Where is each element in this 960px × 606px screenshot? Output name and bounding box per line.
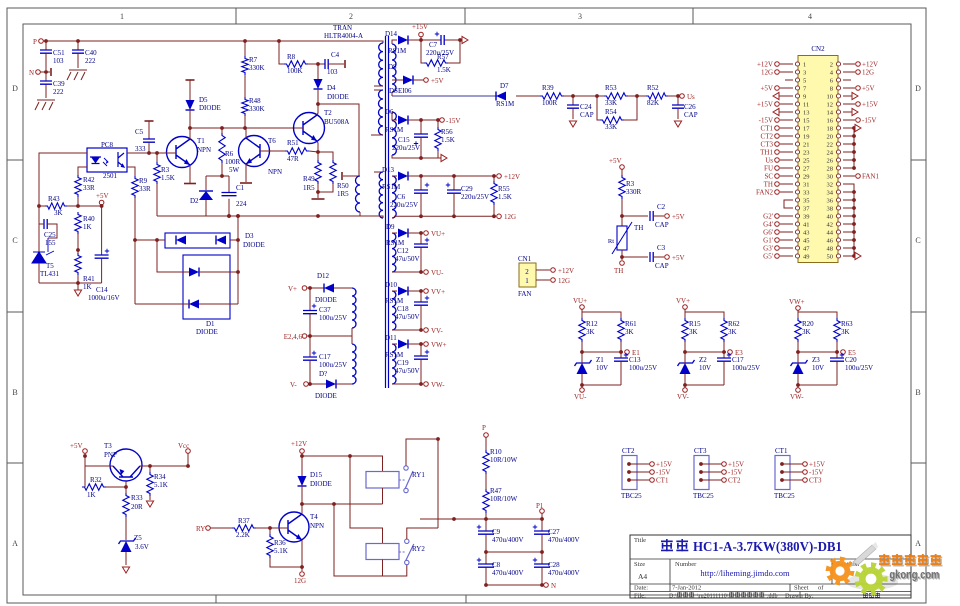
- svg-text:20R: 20R: [131, 503, 143, 511]
- svg-text:VU-: VU-: [574, 393, 587, 401]
- svg-text:15: 15: [803, 118, 810, 125]
- bottom wire D9 row / pin VU-: [394, 271, 423, 273]
- svg-text:R41: R41: [83, 275, 95, 283]
- svg-text:100u/25V: 100u/25V: [732, 364, 760, 372]
- resistor R40: [75, 212, 81, 234]
- svg-text:220u/25V: 220u/25V: [392, 144, 420, 152]
- svg-text:C28: C28: [548, 561, 560, 569]
- wire mid E3: [684, 342, 686, 352]
- svg-text:D12: D12: [317, 272, 330, 280]
- svg-text:+5V: +5V: [96, 192, 109, 200]
- svg-text:Z5: Z5: [134, 534, 142, 542]
- svg-text:33R: 33R: [139, 185, 151, 193]
- CT1 pin +15V: [780, 462, 784, 466]
- wire P top bus: [43, 40, 372, 42]
- svg-text:3K: 3K: [586, 328, 595, 336]
- svg-text:24: 24: [827, 150, 834, 157]
- svg-text:A: A: [915, 539, 921, 548]
- capacitor C3: [622, 256, 648, 258]
- svg-text:5.1K: 5.1K: [154, 481, 168, 489]
- svg-text:470u/400V: 470u/400V: [548, 569, 580, 577]
- net G2' pin: [780, 215, 793, 217]
- svg-text:39: 39: [803, 214, 810, 221]
- resistor R49: [317, 152, 319, 160]
- connector CN1: [519, 263, 536, 287]
- svg-text:Title: Title: [634, 537, 646, 544]
- resistor R51: [285, 148, 309, 154]
- svg-text:1R5: 1R5: [337, 190, 349, 198]
- svg-text:DIODE: DIODE: [310, 480, 332, 488]
- svg-text:V-: V-: [290, 381, 297, 389]
- net CT2 pin: [780, 135, 793, 137]
- wire mid E5: [797, 342, 799, 352]
- transistor T6 (mirrored): [239, 136, 270, 167]
- pin +5V output: [424, 78, 429, 83]
- svg-text:R7: R7: [249, 56, 258, 64]
- bottom wire D11 row / pin VW-: [394, 383, 423, 385]
- svg-text:103: 103: [327, 68, 338, 76]
- svg-text:R37: R37: [238, 517, 250, 525]
- capacitor C24: [572, 96, 574, 105]
- net 12G pin: [780, 71, 793, 73]
- svg-text:13: 13: [803, 110, 810, 117]
- svg-text:+5V: +5V: [609, 157, 622, 165]
- wire T4 collector branch: [302, 503, 383, 505]
- pin TH bottom: [620, 261, 625, 266]
- svg-text:45: 45: [803, 238, 810, 245]
- svg-text:VW-: VW-: [790, 393, 804, 401]
- svg-text:Sheet: Sheet: [794, 585, 809, 592]
- svg-text:Us: Us: [687, 93, 695, 101]
- wire RY1 coil bottom: [382, 488, 384, 504]
- svg-text:C15: C15: [398, 136, 410, 144]
- svg-text:C5: C5: [135, 128, 144, 136]
- wire bottom VU-: [582, 384, 621, 386]
- svg-text:DIODE: DIODE: [196, 328, 218, 336]
- svg-text:220u/25V: 220u/25V: [390, 201, 418, 209]
- svg-text:C4: C4: [331, 51, 340, 59]
- node T3 base: [124, 485, 128, 489]
- svg-text:23: 23: [803, 150, 810, 157]
- svg-text:D8: D8: [388, 63, 397, 71]
- net CT1 pin: [780, 127, 793, 129]
- svg-text:32: 32: [827, 182, 834, 189]
- CN1 pin 1 wire: [536, 279, 550, 281]
- svg-text:of: of: [818, 585, 824, 592]
- svg-text:R36: R36: [274, 539, 286, 547]
- node R6 bottom: [220, 174, 224, 178]
- primary winding A3: [374, 171, 383, 173]
- wire P down: [485, 437, 487, 450]
- svg-text:44: 44: [827, 230, 834, 237]
- svg-text:-15V: -15V: [446, 117, 460, 125]
- svg-text:10R/10W: 10R/10W: [490, 456, 518, 464]
- ground below C40: [67, 70, 87, 80]
- svg-text:330K: 330K: [249, 105, 265, 113]
- svg-text:T3: T3: [104, 442, 112, 450]
- svg-text:5: 5: [803, 78, 806, 85]
- wire collector line to T2 base: [190, 127, 302, 129]
- svg-text:103: 103: [53, 57, 64, 65]
- svg-text:RY: RY: [196, 525, 205, 533]
- CT3 pin CT2: [699, 478, 703, 482]
- svg-text:FAN: FAN: [518, 290, 531, 298]
- svg-text:VW+: VW+: [431, 341, 447, 349]
- svg-text:C24: C24: [580, 103, 592, 111]
- net CT3 pin: [780, 143, 793, 145]
- svg-text:8: 8: [830, 86, 833, 93]
- svg-text:RY1: RY1: [412, 471, 425, 479]
- bottom wire of TL431 block: [39, 282, 102, 284]
- svg-text:D2: D2: [190, 197, 199, 205]
- svg-text:28: 28: [827, 166, 834, 173]
- svg-text:TBC25: TBC25: [774, 492, 795, 500]
- svg-text:CN2: CN2: [811, 45, 825, 53]
- wire T2 base: [302, 127, 303, 129]
- svg-text:T4: T4: [310, 513, 318, 521]
- svg-text:D4: D4: [327, 84, 336, 92]
- svg-text:R49: R49: [303, 175, 315, 183]
- svg-text:47u/50V: 47u/50V: [395, 255, 420, 263]
- svg-text:100u/25V: 100u/25V: [845, 364, 873, 372]
- svg-text:R43: R43: [48, 195, 60, 203]
- svg-text:File:: File:: [634, 593, 646, 600]
- svg-text:36: 36: [827, 198, 834, 205]
- wire R36 to emitter: [270, 558, 302, 567]
- ground bar T6 emitter: [240, 182, 252, 184]
- svg-text:R52: R52: [647, 84, 659, 92]
- resistor R43: [39, 205, 45, 207]
- wire relay feed RY1 coil top: [302, 456, 383, 472]
- capacitor C1: [222, 193, 237, 196]
- svg-text:G3': G3': [763, 245, 773, 253]
- title block frame: [630, 535, 911, 598]
- net +5V pin: [780, 87, 793, 89]
- capacitor C29: [453, 176, 455, 190]
- svg-text:CT1: CT1: [761, 125, 774, 133]
- power arrow below Z5: [122, 567, 129, 573]
- svg-text:C8: C8: [492, 561, 501, 569]
- capacitor C40: [76, 39, 80, 43]
- svg-text:RS1M: RS1M: [386, 239, 405, 247]
- svg-text:B: B: [915, 388, 920, 397]
- wire PC8 anode: [39, 153, 87, 206]
- shunt regulator T5 TL431: [38, 224, 40, 252]
- net 12G pin right: [843, 71, 855, 73]
- svg-text:A4: A4: [638, 572, 647, 581]
- capacitor C28: [541, 552, 543, 564]
- svg-text:G2': G2': [763, 213, 773, 221]
- svg-text:37: 37: [803, 206, 810, 213]
- relay RY2 contacts: [405, 539, 409, 543]
- resistor R62: [721, 318, 727, 342]
- wire feed RY2 coil top: [350, 456, 383, 544]
- resistor R53: [595, 94, 599, 98]
- svg-text:1R5: 1R5: [303, 184, 315, 192]
- svg-text:C51: C51: [53, 49, 65, 57]
- svg-text:CT2: CT2: [728, 477, 741, 485]
- svg-text:470u/400V: 470u/400V: [492, 536, 524, 544]
- svg-text:12G: 12G: [862, 69, 874, 77]
- resistor R8: [277, 39, 281, 43]
- net TH pin: [780, 183, 793, 185]
- resistor R34: [148, 464, 152, 468]
- svg-text:RS1M: RS1M: [385, 126, 404, 134]
- power arrow below R41: [74, 290, 81, 296]
- svg-text:+5V: +5V: [672, 254, 685, 262]
- svg-text:16: 16: [827, 118, 834, 125]
- capacitor C17: [309, 336, 311, 357]
- svg-text:R51: R51: [287, 139, 299, 147]
- watermark text zhonghua gkong: [880, 555, 891, 566]
- svg-text:TL431: TL431: [40, 270, 60, 278]
- svg-text:N: N: [29, 69, 34, 77]
- resistor R9: [132, 176, 138, 198]
- net G5' pin: [780, 255, 793, 257]
- secondary winding S4: [392, 233, 396, 272]
- pin P1: [540, 509, 545, 514]
- svg-text:+15V: +15V: [809, 461, 825, 469]
- return arrow -15V row: [441, 154, 447, 161]
- svg-text:C2: C2: [657, 203, 666, 211]
- svg-text:46: 46: [827, 238, 834, 245]
- svg-text:DIODE: DIODE: [315, 296, 337, 304]
- svg-text:B: B: [12, 388, 17, 397]
- svg-text:34: 34: [827, 190, 834, 197]
- svg-text:25: 25: [803, 158, 810, 165]
- svg-text:C6: C6: [397, 193, 406, 201]
- capacitor C26: [677, 96, 679, 105]
- svg-text:C12: C12: [397, 247, 409, 255]
- CT1 pin CT3: [780, 478, 784, 482]
- svg-text:CAP: CAP: [684, 111, 698, 119]
- svg-text:+15V: +15V: [757, 101, 773, 109]
- svg-text:10V: 10V: [596, 364, 608, 372]
- wire VU+ top: [581, 309, 583, 318]
- svg-text:.ddb: .ddb: [767, 593, 778, 599]
- transistor T2 BU508A: [294, 113, 325, 144]
- pin -15V output: [440, 118, 445, 123]
- wire T6 emitter: [245, 164, 247, 182]
- svg-text:FAN2: FAN2: [756, 189, 773, 197]
- svg-text:1.5K: 1.5K: [441, 136, 455, 144]
- svg-text:V+: V+: [288, 285, 297, 293]
- svg-text:30: 30: [827, 174, 834, 181]
- node T2 emitter / R51 / R49 / R50: [316, 150, 320, 154]
- net G6' pin: [780, 231, 793, 233]
- power arrow below C24: [569, 121, 576, 127]
- CT2 pin -15V: [627, 470, 631, 474]
- svg-text:1.5K: 1.5K: [437, 66, 451, 74]
- pin VW-: [796, 388, 801, 393]
- svg-text:BU508A: BU508A: [324, 118, 349, 126]
- wire V+ row: [307, 287, 324, 289]
- svg-text:T1: T1: [197, 137, 205, 145]
- svg-text:3.6V: 3.6V: [135, 543, 149, 551]
- secondary winding S5: [392, 291, 396, 330]
- wire Vcc to T3 collector: [140, 453, 188, 466]
- svg-text:C25: C25: [44, 231, 56, 239]
- svg-text:-15V: -15V: [809, 469, 823, 477]
- svg-text:Number: Number: [675, 561, 697, 568]
- svg-text:1K: 1K: [87, 491, 96, 499]
- node R8/C4/D4: [308, 63, 318, 65]
- transistor T3 PNP: [110, 449, 142, 481]
- svg-text:1: 1: [120, 12, 124, 21]
- wire bottom VV-: [685, 384, 724, 386]
- transistor T1: [167, 137, 198, 168]
- secondary winding S2: [392, 112, 396, 155]
- wire R3 to bus: [156, 184, 158, 216]
- svg-text:CT2: CT2: [622, 447, 635, 455]
- pin 12G output: [497, 214, 502, 219]
- svg-text:R57: R57: [437, 53, 449, 61]
- svg-text:VV-: VV-: [677, 393, 689, 401]
- CN2 pin 13 arrow: [779, 111, 793, 113]
- CT2 pin +15V: [627, 462, 631, 466]
- svg-text:R61: R61: [625, 320, 637, 328]
- diode D15: [298, 476, 307, 486]
- svg-text:41: 41: [803, 222, 810, 229]
- capacitor C6: [420, 176, 422, 190]
- net FU pin: [780, 167, 793, 169]
- svg-text:TBC25: TBC25: [693, 492, 714, 500]
- pin VU+: [424, 231, 429, 236]
- svg-text:VV+: VV+: [431, 288, 445, 296]
- net -15V pin right: [843, 119, 855, 121]
- svg-text:2: 2: [349, 12, 353, 21]
- wire T1 emitter to bar: [189, 165, 191, 183]
- terminal bar right of C4: [344, 60, 346, 68]
- svg-text:TH1: TH1: [760, 149, 773, 157]
- wire RY2 coil bottom loop: [334, 504, 383, 576]
- pin +5V right of C2: [665, 214, 670, 219]
- CN2 right chain pins 18-28: [843, 127, 854, 129]
- svg-text:C17: C17: [319, 353, 331, 361]
- bottom wire D10 row / pin VV-: [394, 329, 423, 331]
- svg-text:D3: D3: [245, 232, 254, 240]
- svg-text:R34: R34: [154, 473, 166, 481]
- svg-text:12G: 12G: [761, 69, 773, 77]
- svg-text:2.2K: 2.2K: [236, 531, 250, 539]
- svg-text:35: 35: [803, 198, 810, 205]
- svg-text:42: 42: [827, 222, 834, 229]
- svg-text:CT1: CT1: [775, 447, 788, 455]
- bottom wire D13 row: [394, 215, 496, 217]
- capacitor C17: [723, 352, 725, 358]
- svg-text:14: 14: [827, 110, 834, 117]
- svg-text:17: 17: [803, 126, 810, 133]
- svg-text:NPN: NPN: [197, 146, 211, 154]
- bottom bus cap bank / pin N: [486, 584, 543, 586]
- resistor R12: [579, 318, 585, 342]
- pin E1: [625, 350, 630, 355]
- pin +5V right of C3: [665, 255, 670, 260]
- wire PC8 cathode to R42: [78, 167, 87, 175]
- capacitor C14 1000u/16V: [101, 206, 103, 255]
- pin Us: [680, 94, 685, 99]
- pin E5: [841, 350, 846, 355]
- svg-text:http://liheming.jimdo.com: http://liheming.jimdo.com: [700, 568, 790, 578]
- svg-text:43: 43: [803, 230, 810, 237]
- svg-text:-15V: -15V: [759, 117, 773, 125]
- wire PC8 emitter to R9: [127, 167, 135, 176]
- svg-text:TH: TH: [764, 181, 773, 189]
- wire V- row: [308, 383, 326, 385]
- svg-text:7-Jan-2012: 7-Jan-2012: [672, 585, 701, 592]
- svg-text:RS1M: RS1M: [496, 100, 515, 108]
- svg-text:100u/25V: 100u/25V: [319, 361, 347, 369]
- resistor R54 loop: [597, 96, 600, 120]
- wire D1 lower row: [135, 303, 189, 305]
- svg-text:RY2: RY2: [412, 545, 425, 553]
- svg-text:+15V: +15V: [656, 461, 672, 469]
- svg-text:R54: R54: [605, 108, 617, 116]
- capacitor C8: [485, 552, 487, 564]
- wire bottom VW-: [798, 384, 837, 386]
- svg-text:10R/10W: 10R/10W: [490, 495, 518, 503]
- svg-text:470u/400V: 470u/400V: [492, 569, 524, 577]
- svg-text:100u/25V: 100u/25V: [629, 364, 657, 372]
- svg-text:R55: R55: [498, 185, 510, 193]
- svg-text:+12V: +12V: [862, 61, 878, 69]
- pin +15V: [419, 32, 424, 37]
- svg-text:R48: R48: [249, 97, 261, 105]
- net +12V pin: [780, 63, 793, 65]
- svg-text:1K: 1K: [83, 283, 92, 291]
- svg-text:3K: 3K: [625, 328, 634, 336]
- svg-text:1000u/16V: 1000u/16V: [88, 294, 120, 302]
- svg-text:C: C: [12, 236, 17, 245]
- svg-text:DSEI06: DSEI06: [389, 87, 412, 95]
- secondary winding S3: [392, 176, 396, 218]
- svg-text:D:\: D:\: [669, 593, 677, 599]
- svg-text:47u/50V: 47u/50V: [395, 313, 420, 321]
- svg-text:CT2: CT2: [761, 133, 774, 141]
- node T4 base: [268, 526, 272, 530]
- svg-text:33: 33: [803, 190, 810, 197]
- svg-text:2: 2: [525, 268, 529, 276]
- wire +12V rail: [301, 453, 303, 476]
- svg-text:G1': G1': [763, 237, 773, 245]
- svg-text:47R: 47R: [287, 155, 299, 163]
- svg-text:R50: R50: [337, 182, 349, 190]
- pin E3: [728, 350, 733, 355]
- svg-text:220u/25V: 220u/25V: [461, 193, 489, 201]
- resistor R57: [421, 40, 424, 63]
- svg-text:+12V: +12V: [504, 173, 520, 181]
- output arrow +15V: [458, 38, 462, 42]
- svg-text:VV-: VV-: [431, 327, 443, 335]
- capacitor C4: [318, 63, 325, 65]
- ground bar below R49: [317, 192, 319, 198]
- relay coil RY1: [366, 472, 399, 489]
- svg-text:T6: T6: [268, 137, 276, 145]
- svg-text:N: N: [551, 582, 556, 590]
- resistor R63: [834, 318, 840, 342]
- svg-text:CAP: CAP: [655, 221, 669, 229]
- margin column ticks bottom: [216, 595, 466, 603]
- svg-text:CT3: CT3: [809, 477, 822, 485]
- node R42/R43/R40 junction: [76, 204, 80, 208]
- svg-text:G5': G5': [763, 253, 773, 261]
- svg-text:22: 22: [827, 142, 834, 149]
- svg-text:38: 38: [827, 206, 834, 213]
- primary winding A1: [372, 41, 383, 43]
- svg-text:R10: R10: [490, 448, 502, 456]
- svg-text:3: 3: [803, 70, 806, 77]
- svg-text:2501: 2501: [103, 172, 118, 180]
